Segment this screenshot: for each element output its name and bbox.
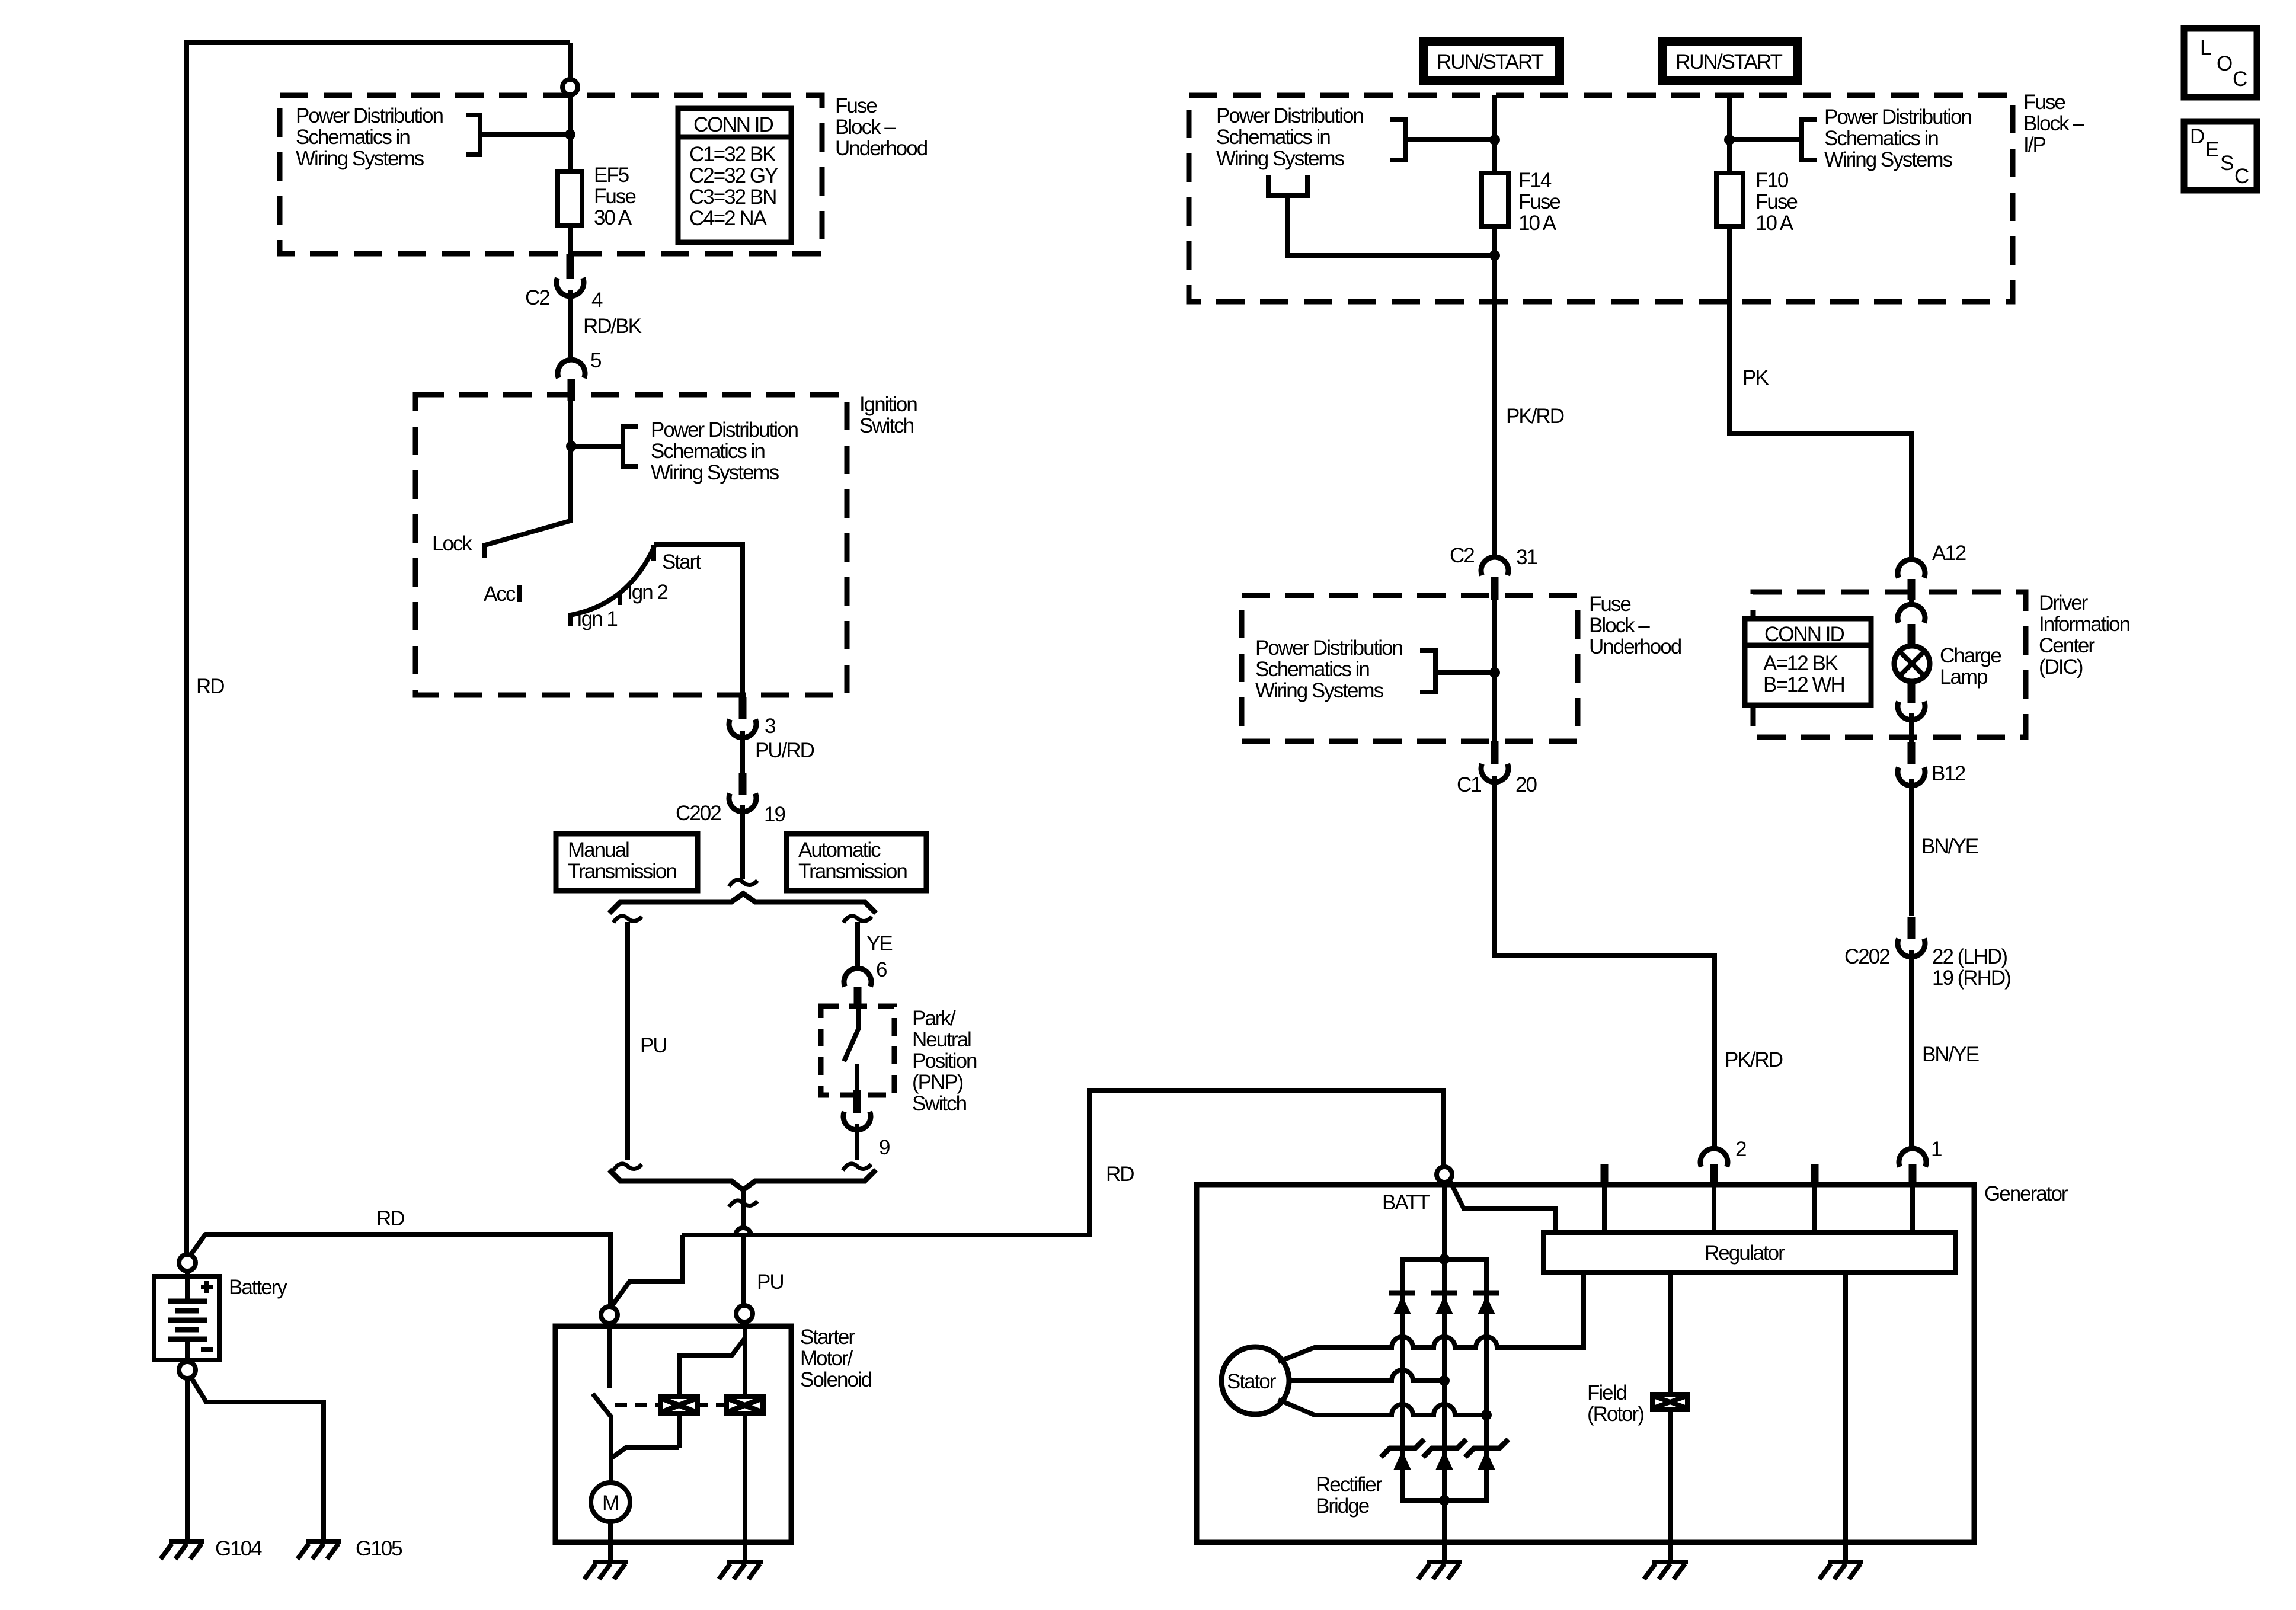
svg-text:C3=32 BN: C3=32 BN xyxy=(689,185,776,209)
svg-text:Transmission: Transmission xyxy=(798,860,907,883)
wire tap to F10 xyxy=(1729,137,1802,142)
svg-text:Information: Information xyxy=(2039,613,2130,636)
node dot middle phase xyxy=(1439,1375,1450,1386)
charge lamp xyxy=(1894,646,1930,681)
svg-text:Schematics in: Schematics in xyxy=(1216,126,1330,149)
svg-text:PU: PU xyxy=(757,1270,784,1294)
fuse F10 xyxy=(1716,173,1743,226)
stator winding circle xyxy=(1221,1347,1289,1414)
bracket under reference (F14) xyxy=(1268,175,1307,196)
wire tap fuse block 2 xyxy=(1435,670,1495,675)
wire blade to coil branch xyxy=(611,1448,679,1458)
battery positive lead xyxy=(185,1271,190,1301)
svg-text:Ignition: Ignition xyxy=(859,393,917,416)
svg-text:C2: C2 xyxy=(1450,544,1474,567)
svg-text:Schematics in: Schematics in xyxy=(296,126,410,149)
diode lower 3 xyxy=(1465,1439,1508,1470)
pin PNP terminal 6 xyxy=(854,987,862,1007)
svg-text:Solenoid: Solenoid xyxy=(800,1368,872,1391)
wire PK/RD to generator terminal 2 xyxy=(1495,776,1715,1148)
wire RD from battery xyxy=(190,1233,610,1307)
svg-text:5: 5 xyxy=(590,349,601,372)
svg-text:C: C xyxy=(2234,165,2249,188)
contact Start stub xyxy=(651,545,656,561)
wire RD top horizontal and left vertical run xyxy=(187,43,570,1254)
svg-text:Bridge: Bridge xyxy=(1316,1494,1369,1518)
svg-text:Underhood: Underhood xyxy=(835,137,928,160)
connector lamp lower xyxy=(1898,702,1925,720)
ground rectifier xyxy=(1418,1562,1462,1579)
svg-text:22 (LHD): 22 (LHD) xyxy=(1932,945,2007,968)
svg-text:Wiring Systems: Wiring Systems xyxy=(1216,147,1345,170)
svg-text:RUN/START: RUN/START xyxy=(1675,50,1783,73)
contact Acc xyxy=(517,585,522,602)
svg-text:C2: C2 xyxy=(525,286,549,309)
wire BN/YE to generator terminal 1 xyxy=(1909,950,1914,1148)
wire ignition feed to Lock contact xyxy=(485,395,570,558)
svg-text:G105: G105 xyxy=(356,1537,402,1560)
svg-text:EF5: EF5 xyxy=(594,164,629,187)
svg-text:Wiring Systems: Wiring Systems xyxy=(1255,679,1384,702)
splice wave left branch xyxy=(613,916,642,923)
fuse block underhood box (EF5) xyxy=(280,95,822,254)
svg-text:31: 31 xyxy=(1516,546,1537,569)
svg-text:RD: RD xyxy=(376,1207,404,1230)
svg-text:Field: Field xyxy=(1587,1381,1626,1404)
fuse EF5 xyxy=(558,171,582,225)
connector C1 pin 20 xyxy=(1481,764,1508,782)
battery positive terminal ring xyxy=(179,1254,196,1271)
svg-text:Center: Center xyxy=(2039,634,2095,657)
connector pin 9 xyxy=(843,1112,871,1130)
connector C2 pin 31 xyxy=(1481,557,1508,575)
wire below PNP xyxy=(855,1124,859,1160)
svg-text:M: M xyxy=(602,1491,618,1515)
ground field xyxy=(1644,1562,1688,1579)
diode lower 1 xyxy=(1381,1439,1424,1470)
battery minus sign xyxy=(201,1347,213,1352)
svg-text:Rectifier: Rectifier xyxy=(1316,1473,1383,1496)
bracket reference (F14) xyxy=(1390,120,1406,160)
splice wave right branch bottom xyxy=(843,1164,871,1170)
wire A12 to lamp connector xyxy=(1909,596,1914,606)
generator box xyxy=(1197,1185,1974,1542)
wire BATT to regulator xyxy=(1450,1180,1555,1233)
pin C2 terminal 4 xyxy=(567,254,574,279)
svg-text:Fuse: Fuse xyxy=(594,185,635,208)
node dot F10 feed xyxy=(1724,135,1735,145)
connector pin 1 xyxy=(1899,1148,1926,1167)
splice wave above brace xyxy=(729,880,757,886)
svg-text:G104: G104 xyxy=(215,1537,262,1560)
pin C202 right xyxy=(1908,917,1916,939)
generator terminal pin 2 xyxy=(1710,1164,1718,1187)
svg-text:D: D xyxy=(2190,125,2204,148)
svg-text:19: 19 xyxy=(764,803,785,826)
node dot F14 feed xyxy=(1489,135,1500,145)
svg-text:CONN ID: CONN ID xyxy=(1764,623,1844,646)
rectifier right leg xyxy=(1484,1259,1489,1500)
ground regulator xyxy=(1819,1562,1863,1579)
dashed solenoid linkage xyxy=(615,1403,724,1407)
node dot EF5 feed tap xyxy=(565,129,575,140)
svg-text:Neutral: Neutral xyxy=(912,1028,971,1051)
wire solenoid battery lead xyxy=(607,1323,612,1388)
node dot bottom phase xyxy=(1481,1410,1492,1420)
wire PU/RD xyxy=(740,731,745,773)
svg-text:PU/RD: PU/RD xyxy=(755,739,814,762)
svg-text:C202: C202 xyxy=(676,802,721,825)
node junction ring at fuse block feed xyxy=(562,79,578,95)
solenoid coil 2 xyxy=(724,1394,766,1416)
wire F14 vertical xyxy=(1492,95,1497,558)
svg-text:Fuse: Fuse xyxy=(1755,190,1797,213)
pin DIC input xyxy=(1908,579,1916,600)
svg-text:Automatic: Automatic xyxy=(798,838,881,862)
wire through fuse block 2 xyxy=(1492,600,1497,741)
svg-text:19 (RHD): 19 (RHD) xyxy=(1932,966,2010,990)
node dot fuse block 2 xyxy=(1489,667,1500,678)
wire BATT main vertical xyxy=(1442,1182,1447,1561)
splice wave below brace xyxy=(729,1201,757,1207)
svg-text:Schematics in: Schematics in xyxy=(651,440,765,463)
battery negative lead xyxy=(185,1339,190,1362)
svg-text:Wiring Systems: Wiring Systems xyxy=(296,147,424,170)
pin ignition switch terminal 5 xyxy=(568,379,575,401)
stator wire top phase xyxy=(1278,1275,1584,1362)
svg-text:C: C xyxy=(2233,68,2247,91)
wire tap inside ignition switch xyxy=(571,444,623,449)
battery box xyxy=(154,1276,219,1360)
svg-text:PK: PK xyxy=(1742,366,1769,389)
LOC box xyxy=(2184,28,2257,97)
connector C202 right xyxy=(1898,939,1925,957)
node dot ignition feed tap xyxy=(566,441,577,452)
svg-text:B=12 WH: B=12 WH xyxy=(1763,673,1844,696)
PNP switch blade xyxy=(844,1007,858,1061)
svg-text:Schematics in: Schematics in xyxy=(1824,127,1938,150)
wire field coil to ground xyxy=(1668,1410,1673,1561)
svg-text:Power Distribution: Power Distribution xyxy=(1255,636,1403,660)
svg-text:10 A: 10 A xyxy=(1518,212,1557,235)
fuse block I/P box xyxy=(1189,95,2013,302)
starter motor/solenoid box xyxy=(555,1326,791,1542)
ignition switch box xyxy=(415,395,847,695)
svg-text:Block –: Block – xyxy=(1589,614,1650,637)
bracket reference (F10) xyxy=(1802,120,1817,160)
svg-text:C4=2 NA: C4=2 NA xyxy=(689,207,768,230)
svg-text:Driver: Driver xyxy=(2039,591,2089,614)
svg-text:A=12 BK: A=12 BK xyxy=(1763,652,1838,675)
svg-text:PU: PU xyxy=(640,1034,667,1057)
PNP switch box xyxy=(821,1006,894,1095)
connector lamp upper xyxy=(1898,604,1925,623)
wire merge to starter xyxy=(741,1190,746,1228)
svg-text:1: 1 xyxy=(1931,1138,1942,1161)
svg-text:9: 9 xyxy=(879,1136,890,1159)
svg-text:Fuse: Fuse xyxy=(835,94,877,117)
generator terminal pin BATT-side xyxy=(1601,1164,1609,1187)
svg-text:F14: F14 xyxy=(1518,169,1552,192)
svg-text:O: O xyxy=(2217,52,2232,75)
svg-text:Power Distribution: Power Distribution xyxy=(1824,105,1972,129)
rectifier top bus xyxy=(1400,1257,1489,1262)
field rotor coil xyxy=(1650,1392,1690,1412)
svg-text:3: 3 xyxy=(765,715,775,738)
svg-text:Acc: Acc xyxy=(484,582,516,606)
svg-text:10 A: 10 A xyxy=(1755,212,1794,235)
svg-text:Generator: Generator xyxy=(1984,1182,2068,1205)
ground solenoid xyxy=(719,1562,763,1579)
fuse block underhood box 2 xyxy=(1242,596,1578,741)
svg-text:A12: A12 xyxy=(1932,542,1966,565)
pin B12 xyxy=(1908,742,1916,764)
svg-text:CONN ID: CONN ID xyxy=(693,113,773,136)
svg-text:Block –: Block – xyxy=(2023,112,2084,135)
pin lamp lower xyxy=(1908,681,1916,703)
generator terminal pin 1 xyxy=(1909,1164,1917,1187)
svg-text:Power Distribution: Power Distribution xyxy=(651,418,798,441)
svg-text:C1=32 BK: C1=32 BK xyxy=(689,143,776,166)
connector C2 pin 4 xyxy=(557,278,584,296)
generator terminal pin mid xyxy=(1811,1164,1819,1187)
DIC box xyxy=(1753,592,2026,737)
wire under reference to F14 output xyxy=(1288,196,1495,255)
svg-text:Underhood: Underhood xyxy=(1589,635,1681,658)
regulator box xyxy=(1543,1233,1955,1272)
svg-text:BN/YE: BN/YE xyxy=(1921,835,1978,858)
svg-text:2: 2 xyxy=(1735,1138,1746,1161)
svg-text:Fuse: Fuse xyxy=(1518,190,1560,213)
PNP lower contact xyxy=(855,1064,859,1090)
wire motor to ground xyxy=(608,1522,613,1561)
svg-text:C1: C1 xyxy=(1457,773,1481,796)
wire solenoid coil lead xyxy=(743,1323,747,1561)
motor M xyxy=(591,1483,630,1522)
pin ignition output xyxy=(739,697,747,719)
ground starter motor xyxy=(584,1562,628,1579)
svg-text:6: 6 xyxy=(876,958,887,981)
splice wave left branch bottom xyxy=(613,1164,642,1170)
switch wiper curve xyxy=(570,546,654,615)
svg-text:Park/: Park/ xyxy=(912,1007,956,1030)
rectifier left leg xyxy=(1400,1259,1405,1500)
wire hold-in coil branch xyxy=(679,1338,745,1448)
svg-text:Battery: Battery xyxy=(229,1276,287,1299)
splice wave right branch xyxy=(843,916,872,923)
Manual Transmission box xyxy=(556,834,698,891)
wire lamp to B12 xyxy=(1909,713,1914,742)
bracket for power distribution reference (box 1) xyxy=(466,115,480,155)
svg-text:YE: YE xyxy=(866,932,892,955)
terminal ring solenoid S xyxy=(736,1305,753,1322)
node dot F14 output xyxy=(1489,250,1500,261)
svg-text:S: S xyxy=(2220,152,2233,175)
svg-text:Wiring Systems: Wiring Systems xyxy=(1824,148,1953,171)
svg-text:Starter: Starter xyxy=(800,1326,855,1349)
connector C202 pin 19 xyxy=(729,793,756,812)
CONN ID table (DIC) xyxy=(1745,619,1871,705)
wire PU to solenoid xyxy=(741,1235,746,1305)
wire RD to generator xyxy=(682,1090,1444,1235)
diode upper 2 xyxy=(1431,1293,1457,1314)
wire regulator to field coil xyxy=(1668,1272,1673,1394)
diode upper 1 xyxy=(1389,1293,1415,1314)
pin fuse block 2 input xyxy=(1491,577,1499,600)
svg-text:Block –: Block – xyxy=(835,116,896,139)
solenoid contact switch blade xyxy=(593,1394,611,1483)
pin C202 terminal 19 xyxy=(739,773,747,795)
svg-text:20: 20 xyxy=(1515,773,1537,796)
wire F10 vertical xyxy=(1729,95,1911,559)
svg-text:B12: B12 xyxy=(1932,762,1965,785)
svg-text:Schematics in: Schematics in xyxy=(1255,658,1369,681)
battery plates xyxy=(168,1301,207,1339)
diode upper 3 xyxy=(1473,1293,1499,1314)
brace bottom merge xyxy=(609,1170,876,1190)
CONN ID table (underhood) xyxy=(678,108,791,242)
svg-text:E: E xyxy=(2205,138,2218,161)
ground G104 xyxy=(161,1542,204,1559)
svg-text:PK/RD: PK/RD xyxy=(1506,405,1564,428)
connector pin A12 xyxy=(1898,559,1925,578)
terminal ring BATT xyxy=(1437,1167,1452,1182)
svg-text:Switch: Switch xyxy=(859,414,914,437)
svg-text:Start: Start xyxy=(662,550,701,574)
wire battery negative to G105 xyxy=(191,1377,324,1541)
terminal ring starter B xyxy=(601,1307,618,1323)
svg-text:4: 4 xyxy=(591,289,603,312)
wire Start output xyxy=(654,545,743,697)
wire regulator ground lead xyxy=(1843,1272,1848,1561)
connector pin 2 xyxy=(1700,1148,1728,1167)
svg-text:Switch: Switch xyxy=(912,1092,967,1115)
svg-text:PK/RD: PK/RD xyxy=(1725,1048,1783,1071)
solenoid coil 1 xyxy=(658,1394,700,1416)
pin lamp upper xyxy=(1908,624,1916,646)
svg-text:Fuse: Fuse xyxy=(2023,91,2065,114)
ground G105 xyxy=(298,1542,341,1559)
bracket reference (fuse block 2) xyxy=(1420,651,1435,692)
RUN/START box 2 xyxy=(1658,37,1802,85)
svg-text:(Rotor): (Rotor) xyxy=(1587,1403,1643,1426)
svg-text:Lamp: Lamp xyxy=(1940,665,1987,689)
svg-text:Transmission: Transmission xyxy=(568,860,676,883)
svg-text:RUN/START: RUN/START xyxy=(1437,50,1544,73)
wire RD/BK xyxy=(568,290,573,357)
svg-text:Charge: Charge xyxy=(1940,644,2001,667)
wire PU left branch xyxy=(625,922,630,1160)
svg-text:RD: RD xyxy=(1106,1163,1134,1186)
svg-text:F10: F10 xyxy=(1755,169,1789,192)
battery negative terminal ring xyxy=(179,1362,196,1378)
contact Ign 1 xyxy=(568,613,573,626)
svg-text:Position: Position xyxy=(912,1049,977,1073)
svg-text:Stator: Stator xyxy=(1227,1370,1277,1393)
brace top split xyxy=(609,894,876,913)
svg-text:Fuse: Fuse xyxy=(1589,593,1630,616)
svg-text:Lock: Lock xyxy=(432,532,472,555)
wire tap to EF5 feed xyxy=(480,132,570,137)
svg-text:Power Distribution: Power Distribution xyxy=(296,104,443,127)
svg-text:RD/BK: RD/BK xyxy=(583,315,642,338)
node dot bottom bus xyxy=(1439,1495,1450,1506)
svg-text:30 A: 30 A xyxy=(594,206,632,229)
wire YE xyxy=(855,922,860,968)
pin C1 terminal 20 xyxy=(1491,741,1499,764)
diode lower 2 xyxy=(1423,1439,1466,1470)
svg-text:Motor/: Motor/ xyxy=(800,1347,853,1370)
wire BN/YE upper xyxy=(1909,779,1914,916)
wire battery negative to G104 xyxy=(185,1378,190,1541)
wire terminal leads to regulator xyxy=(1604,1185,1913,1233)
connector pin 3 xyxy=(729,719,756,738)
wire hop over RD xyxy=(736,1228,751,1235)
pin PNP terminal 9 xyxy=(853,1090,861,1113)
stator wire bottom phase xyxy=(1278,1400,1486,1415)
svg-text:BN/YE: BN/YE xyxy=(1922,1043,1979,1066)
stator wire middle phase xyxy=(1289,1370,1444,1381)
fuse F14 xyxy=(1482,173,1508,226)
svg-text:Ign 2: Ign 2 xyxy=(627,581,667,604)
svg-text:Manual: Manual xyxy=(568,838,629,862)
rectifier bottom bus xyxy=(1400,1498,1489,1503)
wire jog to starter battery terminal xyxy=(611,1235,682,1307)
wire through EF5 fuse xyxy=(568,95,573,254)
connector pin 5 xyxy=(558,360,585,378)
wire to transmission split xyxy=(740,805,745,879)
contact Ign 2 xyxy=(618,594,622,605)
RUN/START box 1 xyxy=(1419,37,1564,85)
svg-text:Wiring Systems: Wiring Systems xyxy=(651,461,779,484)
node dot top bus xyxy=(1439,1254,1450,1265)
svg-text:(DIC): (DIC) xyxy=(2039,655,2083,678)
svg-text:(PNP): (PNP) xyxy=(912,1071,963,1094)
svg-text:C2=32 GY: C2=32 GY xyxy=(689,164,778,187)
Automatic Transmission box xyxy=(786,834,926,891)
svg-text:Power Distribution: Power Distribution xyxy=(1216,104,1364,127)
svg-text:C202: C202 xyxy=(1844,945,1889,968)
connector pin B12 xyxy=(1898,767,1925,786)
bracket for power distribution reference (ignition) xyxy=(623,427,638,466)
wire stub from top run to junction ring xyxy=(568,43,573,79)
svg-text:L: L xyxy=(2200,36,2211,59)
svg-text:I/P: I/P xyxy=(2023,133,2045,156)
DESC box xyxy=(2184,121,2257,190)
svg-text:RD: RD xyxy=(196,675,224,698)
wire tap to F14 xyxy=(1406,137,1495,142)
battery plus sign xyxy=(201,1281,213,1293)
connector pin 6 xyxy=(844,968,871,987)
svg-text:BATT: BATT xyxy=(1382,1191,1430,1214)
svg-text:Regulator: Regulator xyxy=(1705,1241,1785,1265)
